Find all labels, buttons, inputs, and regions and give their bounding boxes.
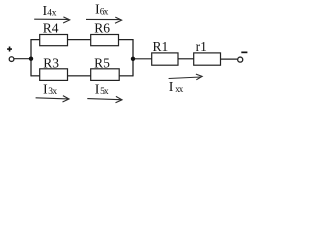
resistor R3 (40, 69, 68, 81)
arrow I4x (34, 17, 69, 23)
arrow I6x (86, 17, 122, 23)
terminal + circle (9, 57, 14, 62)
+ sign (7, 47, 12, 52)
svg-text:R3: R3 (43, 56, 59, 71)
svg-text:x: x (179, 84, 184, 94)
svg-text:R6: R6 (94, 20, 110, 35)
terminal - circle (238, 57, 243, 62)
svg-text:x: x (104, 87, 109, 97)
resistor R1 (152, 53, 178, 65)
resistor R6 (91, 35, 119, 46)
node B junction dot (131, 57, 135, 61)
resistor r1 (194, 53, 221, 65)
svg-text:R4: R4 (43, 20, 59, 35)
wire node B to R1 (133, 58, 152, 60)
svg-text:x: x (52, 87, 57, 97)
svg-text:x: x (104, 7, 109, 17)
wire right bus vertical (132, 39, 134, 76)
svg-text:R5: R5 (94, 56, 110, 71)
svg-text:I: I (169, 80, 174, 95)
- sign (241, 51, 247, 53)
svg-text:I: I (95, 83, 100, 98)
wire r1 to - terminal (221, 58, 238, 60)
wire R1 to r1 (178, 58, 194, 60)
resistor R4 (40, 35, 68, 46)
resistor R5 (91, 69, 120, 81)
wire top branch horizontal (31, 39, 133, 41)
arrow I3x (36, 96, 69, 102)
wire from + terminal to node A (14, 58, 32, 60)
svg-text:r1: r1 (196, 39, 207, 54)
svg-text:R1: R1 (153, 39, 169, 54)
wire left bus vertical (30, 39, 32, 76)
arrow Ixx (169, 74, 203, 80)
svg-text:x: x (52, 8, 57, 18)
arrow I5x (87, 96, 122, 102)
node A junction dot (29, 57, 33, 61)
wire bottom branch horizontal (31, 75, 133, 77)
